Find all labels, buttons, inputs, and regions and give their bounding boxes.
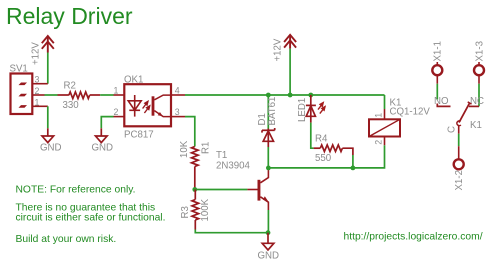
svg-text:LED1: LED1: [297, 98, 308, 122]
svg-text:550: 550: [315, 153, 332, 164]
transistor T1 base stub: [247, 189, 257, 191]
svg-text:Relay Driver: Relay Driver: [6, 3, 133, 29]
terminal X1-3 circle: [474, 65, 484, 75]
node LED1 top junction: [308, 93, 313, 98]
terminal X1-3 stub top: [478, 62, 480, 65]
terminal X1-1 stub top: [436, 62, 438, 65]
wire R3 to emitter node: [195, 230, 268, 233]
resistor R2: [58, 92, 101, 99]
svg-text:PC817: PC817: [124, 130, 154, 141]
OK1 pin 4 stub: [171, 94, 185, 96]
svg-text:NOTE: For reference only.: NOTE: For reference only.: [16, 185, 136, 196]
terminal X1-1 stub bottom: [436, 75, 438, 83]
wire collector to node: [267, 168, 269, 170]
svg-text:Build at your own risk.: Build at your own risk.: [16, 234, 117, 245]
node R4 junction: [351, 166, 356, 171]
svg-text:T1: T1: [216, 150, 227, 161]
wire R4 to collector net: [352, 155, 354, 168]
svg-text:3: 3: [175, 107, 180, 117]
terminal X1-2 stub top: [458, 146, 460, 159]
OK1 emitter arrow: [158, 112, 163, 116]
svg-text:330: 330: [63, 100, 80, 111]
svg-text:10K: 10K: [179, 140, 190, 158]
OK1 photo-transistor bar: [152, 96, 155, 115]
contact blade: [459, 103, 470, 123]
svg-text:R2: R2: [64, 81, 76, 92]
node collector junction: [266, 166, 271, 171]
svg-text:100K: 100K: [200, 198, 211, 221]
OK1 pin 3 stub: [171, 116, 185, 118]
+12V supply P1 symbol: [42, 36, 54, 53]
ground GND (T1): [262, 233, 274, 250]
svg-text:4: 4: [175, 85, 180, 95]
svg-text:X1-3: X1-3: [474, 41, 485, 61]
svg-text:2: 2: [114, 107, 119, 117]
ground GND (OK1): [96, 128, 108, 142]
node +12V rail junction: [288, 93, 293, 98]
svg-text:2: 2: [373, 140, 383, 145]
svg-text:+12V: +12V: [273, 38, 284, 61]
svg-text:R4: R4: [315, 134, 328, 145]
terminal X1-1 circle: [432, 65, 442, 75]
relay K1 coil diagonal: [369, 119, 400, 136]
svg-text:2: 2: [35, 86, 40, 96]
contact blade tip serif: [468, 102, 472, 104]
SV1 pin 1 stub: [32, 105, 47, 107]
relay K1 coil pin 2 stub: [384, 137, 386, 146]
node D1 top junction: [266, 93, 271, 98]
contact NO fixed terminal: [437, 104, 450, 107]
SV1 pin 3 stub: [32, 83, 47, 85]
SV1 pin 2 stub: [32, 94, 44, 96]
svg-text:1: 1: [35, 97, 40, 107]
wire junction to T1 base: [195, 189, 248, 191]
wire SV1 pin2 to R2: [45, 94, 58, 96]
wire +12V P2 to rail: [289, 49, 291, 95]
wire OK1 pin2 to GND: [101, 117, 113, 129]
wire OK1 pin3 down to R1: [185, 117, 195, 147]
wire X1-1 to NO: [436, 84, 438, 100]
terminal X1-3 stub bottom: [478, 75, 480, 83]
diode D1 (BAT61 schottky): [262, 128, 275, 147]
wire pivot to X1-2: [458, 134, 460, 147]
relay K1 coil pin 1 stub: [384, 109, 386, 119]
svg-text:GND: GND: [92, 143, 114, 154]
wire X1-3 to NC: [478, 84, 480, 107]
wire rail to D1: [267, 95, 269, 129]
terminal X1-2 circle: [454, 159, 464, 169]
resistor R1: [192, 147, 199, 190]
+12V supply P2 symbol: [284, 35, 296, 49]
wire D1 to collector node: [267, 147, 269, 168]
svg-text:circuit is either safe or func: circuit is either safe or functional.: [16, 212, 166, 223]
svg-text:+12V: +12V: [31, 42, 42, 65]
wire +12V rail to relay pin1: [384, 95, 386, 109]
SV1 pin flag 1: [19, 105, 28, 108]
OK1 collector line: [154, 95, 171, 100]
svg-text:BAT61: BAT61: [267, 97, 278, 126]
svg-text:X1-1: X1-1: [433, 41, 444, 61]
contact pivot hook: [457, 121, 461, 126]
wire OK1 pin4 to +12V rail: [185, 94, 385, 96]
svg-text:3: 3: [35, 75, 40, 85]
OK1 emitter line: [154, 111, 171, 117]
led LED1: [306, 95, 316, 123]
contact pivot stub: [458, 126, 460, 134]
svg-text:K1: K1: [470, 120, 482, 131]
wire +12V to SV1 pin3: [47, 53, 49, 84]
relay K1 coil body: [369, 119, 400, 136]
svg-text:NC: NC: [470, 96, 484, 107]
svg-text:CQ1-12V: CQ1-12V: [390, 107, 431, 118]
contact NC fixed terminal: [469, 105, 479, 107]
resistor R4: [314, 145, 353, 155]
svg-text:1: 1: [114, 85, 119, 95]
OK1 internal LED: [128, 95, 141, 117]
OK1 pin 1 stub: [114, 94, 125, 96]
wire collector net to relay pin2: [268, 145, 384, 168]
svg-text:GND: GND: [40, 143, 62, 154]
svg-text:2N3904: 2N3904: [216, 161, 251, 172]
connector SV1 body: [11, 74, 33, 115]
ground GND (SV1): [42, 128, 54, 142]
svg-text:http://projects.logicalzero.co: http://projects.logicalzero.com/: [344, 231, 483, 242]
transistor T1 emitter: [260, 197, 268, 210]
svg-text:1: 1: [373, 113, 383, 118]
SV1 pin flag 3: [19, 83, 28, 86]
svg-text:R1: R1: [201, 142, 212, 154]
svg-text:R3: R3: [180, 206, 191, 218]
resistor R3: [192, 190, 199, 230]
wire emitter to GND node: [267, 210, 269, 233]
svg-text:NO: NO: [434, 96, 449, 107]
transistor T1 base bar: [258, 180, 261, 201]
SV1 pin flag 2: [19, 94, 28, 97]
svg-text:X1-2: X1-2: [454, 170, 465, 190]
svg-text:C: C: [447, 126, 458, 133]
transistor T1 collector: [260, 170, 268, 183]
transistor T1 emitter arrow: [263, 196, 269, 202]
wire LED1 to R4: [311, 123, 314, 149]
LED1 light arrows: [318, 103, 325, 114]
opto-coupler OK1 body: [124, 84, 171, 126]
wire R2 to OK1 pin1: [100, 94, 113, 96]
svg-text:GND: GND: [258, 250, 280, 261]
wire SV1 pin1 to GND: [47, 106, 49, 128]
node emitter/R3 junction: [266, 230, 271, 235]
node base junction: [192, 187, 197, 192]
OK1 pin 2 stub: [114, 116, 125, 118]
OK1 light arrows: [143, 101, 150, 113]
